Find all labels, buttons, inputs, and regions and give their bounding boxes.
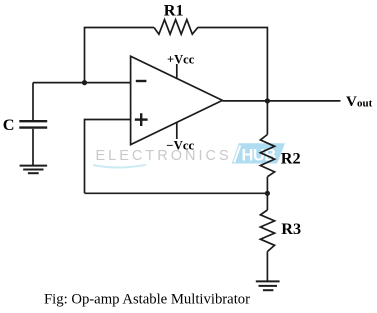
op-amp U1 triangle xyxy=(131,56,223,144)
wire bottom feedback xyxy=(85,192,268,194)
svg-text:HUB: HUB xyxy=(242,147,277,165)
wire R3 bottom lead xyxy=(266,252,268,282)
wire output xyxy=(222,100,340,102)
wire inverting input xyxy=(33,82,131,84)
ground (capacitor) xyxy=(20,166,47,174)
wire node B down to R3 xyxy=(266,193,268,210)
capacitor C xyxy=(19,121,47,127)
wire capacitor top lead xyxy=(32,83,34,121)
resistor R3 xyxy=(260,210,274,252)
watermark Electronics Hub logo xyxy=(93,143,285,167)
svg-text:R2: R2 xyxy=(281,149,301,168)
wire from R1 to right vertical xyxy=(198,28,268,102)
svg-text:R1: R1 xyxy=(164,1,184,20)
wire R2 bottom to node B xyxy=(266,177,268,194)
ground (R3) xyxy=(256,281,280,290)
svg-text:+Vcc: +Vcc xyxy=(167,52,195,66)
resistor R1 xyxy=(154,20,198,35)
node B junction dot (R2/R3 divider) xyxy=(265,191,270,196)
pin +Vcc lead xyxy=(176,64,178,79)
node A junction dot (inverting input node) xyxy=(82,80,87,85)
wire top feedback from node A to R1 xyxy=(85,28,155,83)
wire capacitor bottom lead xyxy=(32,129,34,166)
svg-text:out: out xyxy=(357,98,373,110)
svg-text:R3: R3 xyxy=(281,219,301,238)
node output junction dot xyxy=(265,98,270,103)
svg-text:ELECTRONICS: ELECTRONICS xyxy=(96,148,232,164)
svg-text:Fig: Op-amp Astable Multivibra: Fig: Op-amp Astable Multivibrator xyxy=(44,292,250,308)
svg-text:C: C xyxy=(3,115,15,134)
svg-text:−Vcc: −Vcc xyxy=(166,139,194,153)
wire non-inverting input xyxy=(85,120,131,194)
svg-text:V: V xyxy=(346,94,357,110)
op-amp minus input sign xyxy=(136,80,147,82)
label Vout xyxy=(346,94,373,110)
op-amp plus input sign xyxy=(135,113,148,126)
pin -Vcc lead xyxy=(176,122,178,139)
wire output node down to R2 xyxy=(266,101,268,135)
resistor R2 xyxy=(260,135,274,177)
